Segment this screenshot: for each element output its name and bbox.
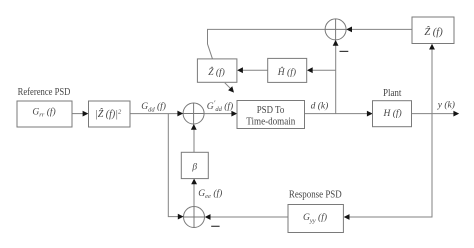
svg-text:β: β bbox=[191, 163, 197, 173]
svg-text:y (k): y (k) bbox=[437, 99, 455, 110]
svg-text:PSD To: PSD To bbox=[257, 105, 285, 116]
svg-text:Gdd (f): Gdd (f) bbox=[141, 101, 166, 113]
svg-text:Time-domain: Time-domain bbox=[246, 116, 296, 127]
svg-text:Grr (f): Grr (f) bbox=[32, 106, 55, 118]
svg-text:Reference PSD: Reference PSD bbox=[18, 87, 71, 98]
svg-text:Plant: Plant bbox=[383, 88, 402, 99]
svg-text:Ẑ (f): Ẑ (f) bbox=[424, 26, 443, 38]
svg-text:Response PSD: Response PSD bbox=[289, 189, 342, 200]
svg-text:Gyy (f): Gyy (f) bbox=[303, 212, 327, 224]
svg-text:H (f): H (f) bbox=[383, 108, 402, 119]
svg-text:d (k): d (k) bbox=[311, 101, 329, 112]
svg-text:G′dd (f): G′dd (f) bbox=[207, 99, 233, 113]
svg-text:|Ẑ (f)|2: |Ẑ (f)|2 bbox=[95, 108, 122, 120]
svg-text:Gee (f): Gee (f) bbox=[198, 188, 222, 200]
svg-text:Ẑ (f): Ẑ (f) bbox=[208, 66, 225, 78]
svg-text:Ĥ (f): Ĥ (f) bbox=[277, 66, 296, 78]
